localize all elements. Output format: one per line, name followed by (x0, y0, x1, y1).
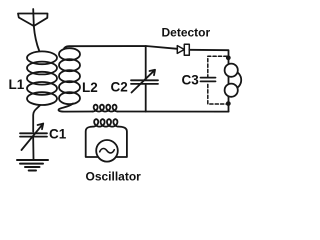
capacitor C2 plates (131, 80, 158, 84)
wire detector to right rail (189, 50, 228, 112)
detector diode (177, 44, 189, 55)
antenna (18, 9, 48, 26)
svg-text:Oscillator: Oscillator (86, 170, 142, 184)
coupling coil of L2 (93, 105, 118, 112)
junction node top (226, 55, 231, 60)
svg-text:L2: L2 (82, 80, 98, 95)
C2 arrow (132, 70, 156, 93)
headphone band (233, 71, 241, 90)
svg-text:Detector: Detector (162, 26, 211, 40)
wire L1 to C1 (33, 105, 40, 131)
inductor L2 (59, 48, 80, 104)
svg-text:C3: C3 (182, 73, 200, 88)
sine wave (100, 148, 115, 152)
wire antenna to L1 (34, 26, 40, 51)
headphone earpiece bottom (225, 84, 238, 97)
wire L2 bottom (58, 104, 92, 112)
C1 arrow (22, 124, 44, 150)
oscillator coil (93, 119, 119, 126)
bottom wire to right rail (118, 111, 229, 113)
ground (17, 160, 48, 171)
wire C1 to ground (32, 138, 34, 159)
C3 dashed leads (208, 56, 227, 104)
capacitor C2 lead (145, 46, 147, 112)
headphone earpiece top (225, 64, 238, 77)
oscillator box right side (116, 127, 127, 157)
inductor L1 (27, 51, 57, 105)
svg-text:C2: C2 (111, 80, 128, 95)
wire L2 top to detector (64, 46, 177, 49)
svg-text:L1: L1 (9, 77, 25, 92)
capacitor C1 (20, 133, 47, 136)
capacitor C3 plates (201, 78, 216, 82)
svg-text:C1: C1 (49, 127, 67, 142)
junction node bottom (226, 101, 231, 106)
AC source circle (96, 140, 118, 162)
oscillator box left side (86, 127, 99, 157)
